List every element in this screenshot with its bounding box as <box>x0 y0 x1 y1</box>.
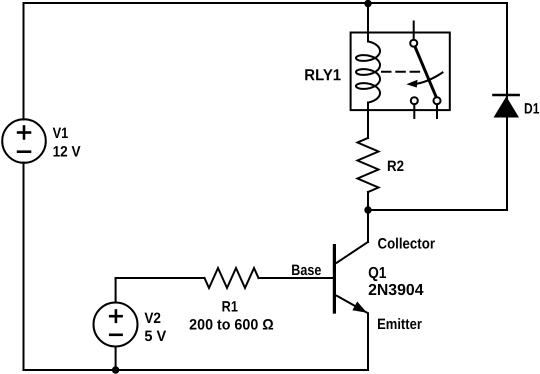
relay switch top pin <box>413 22 415 40</box>
resistor R2 zigzag <box>358 138 379 192</box>
junction node top <box>364 0 371 7</box>
wire V2 bottom lead <box>115 347 117 371</box>
wire base right segment <box>259 277 334 279</box>
junction node bottom <box>112 366 119 373</box>
wire coil bottom lead to R2 <box>367 103 369 139</box>
relay switch top terminal circle <box>410 40 417 47</box>
relay arrow head <box>406 80 417 88</box>
svg-text:Emitter: Emitter <box>377 316 422 333</box>
wire bottom horizontal <box>24 369 369 371</box>
transistor Q1 emitter arrow head <box>352 302 367 313</box>
V2 minus sign <box>109 333 123 336</box>
svg-text:R1: R1 <box>222 298 238 315</box>
relay switch bottom-right pin <box>436 104 438 118</box>
V2 plus sign <box>109 315 123 318</box>
wire right vertical <box>506 3 508 210</box>
relay actuation dashed link <box>382 71 419 73</box>
relay RLY1 box <box>351 33 450 111</box>
junction node collector <box>364 206 371 213</box>
svg-text:R2: R2 <box>387 158 404 175</box>
svg-text:Q1: Q1 <box>368 265 386 282</box>
svg-text:V1: V1 <box>53 125 69 142</box>
V1 plus sign <box>17 131 32 134</box>
wire left vertical upper <box>23 3 25 120</box>
svg-text:V2: V2 <box>144 310 161 327</box>
inductor coil of relay <box>356 42 380 103</box>
relay arrow curve <box>412 73 443 85</box>
svg-text:Base: Base <box>291 262 321 279</box>
wire collector vertical <box>367 210 369 242</box>
svg-text:D1: D1 <box>524 100 539 117</box>
transistor Q1 collector diagonal <box>336 242 368 263</box>
wire coil top lead <box>367 3 369 42</box>
relay switch arm <box>415 47 436 96</box>
svg-text:200 to 600 Ω: 200 to 600 Ω <box>189 316 274 333</box>
wire emitter vertical <box>367 313 369 370</box>
wire collector node horizontal <box>368 209 507 211</box>
wire base left segment <box>116 277 205 279</box>
source V2 circle <box>94 303 138 347</box>
wire top horizontal <box>24 2 508 4</box>
source V1 circle <box>2 119 46 163</box>
wire V2 top lead <box>115 278 117 303</box>
wire R2 bottom to node <box>367 192 369 210</box>
resistor R1 zigzag <box>205 268 259 288</box>
svg-text:2N3904: 2N3904 <box>368 282 424 299</box>
svg-text:RLY1: RLY1 <box>304 67 341 84</box>
svg-text:5 V: 5 V <box>144 328 166 345</box>
relay switch bottom-right terminal circle <box>434 97 441 104</box>
V1 minus sign <box>17 150 32 153</box>
svg-text:12 V: 12 V <box>53 143 81 160</box>
svg-text:Collector: Collector <box>377 235 435 252</box>
relay switch bottom-left pin <box>413 104 415 118</box>
relay switch bottom-left terminal circle <box>411 97 418 104</box>
diode D1 triangle <box>494 97 520 118</box>
diode D1 cathode bar <box>492 94 520 97</box>
wire left vertical lower <box>23 163 25 371</box>
transistor Q1 base bar <box>333 244 336 314</box>
transistor Q1 emitter diagonal <box>336 295 368 313</box>
